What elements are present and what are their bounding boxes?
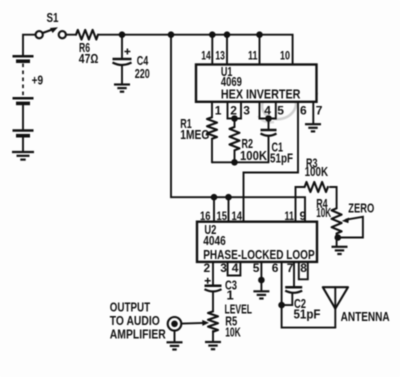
ground (battery) bbox=[12, 152, 34, 160]
resistor R1 1MEG bbox=[180, 116, 217, 162]
wire pins 2-3 bracket bbox=[228, 102, 242, 119]
svg-text:8: 8 bbox=[300, 261, 307, 275]
node: R2 top junction bbox=[231, 115, 238, 122]
node: U2 supply riser junction bbox=[168, 31, 175, 38]
svg-text:S1: S1 bbox=[47, 10, 59, 25]
node: pin14 stub junction bbox=[209, 31, 216, 38]
svg-text:1: 1 bbox=[227, 288, 234, 303]
svg-text:47Ω: 47Ω bbox=[79, 51, 99, 66]
svg-text:11: 11 bbox=[248, 49, 258, 63]
output jack J1 bbox=[168, 317, 182, 342]
svg-text:220: 220 bbox=[135, 66, 150, 81]
svg-text:ZERO: ZERO bbox=[348, 201, 374, 216]
wire pin 16 stub bbox=[213, 197, 215, 222]
resistor R4 10K (zero pot) bbox=[316, 196, 341, 246]
svg-text:6: 6 bbox=[300, 104, 307, 118]
svg-text:13: 13 bbox=[215, 49, 225, 63]
svg-text:14: 14 bbox=[201, 49, 211, 63]
capacitor C1 51pF bbox=[261, 119, 294, 166]
capacitor C2 51pF bbox=[282, 262, 321, 322]
label output bbox=[110, 299, 166, 341]
svg-text:10K: 10K bbox=[316, 205, 331, 220]
node: pin 5 junction bbox=[258, 277, 265, 284]
svg-text:4046: 4046 bbox=[203, 233, 226, 248]
antenna bbox=[323, 287, 390, 327]
node: R2 bottom junction bbox=[231, 159, 238, 166]
svg-text:OUTPUT: OUTPUT bbox=[110, 299, 150, 314]
wire pin 6 to pin 14 of U2 bbox=[244, 102, 299, 222]
scan ghost smudge bbox=[258, 88, 318, 123]
capacitor C3 1uF bbox=[205, 278, 238, 312]
wire pin 6 to antenna/C2 node bbox=[282, 262, 336, 328]
svg-text:3: 3 bbox=[220, 261, 227, 275]
wire pin 5 stub bbox=[260, 262, 262, 291]
pin labels U2 top bbox=[200, 209, 307, 223]
wire oscillator bottom rail bbox=[212, 161, 269, 163]
ground (U2 pin 5) bbox=[253, 291, 269, 298]
svg-text:100K: 100K bbox=[240, 148, 268, 163]
svg-text:PHASE-LOCKED LOOP: PHASE-LOCKED LOOP bbox=[203, 247, 315, 262]
pot wiper arrow (ZERO) bbox=[337, 201, 375, 238]
resistor R3 100K bbox=[305, 155, 337, 208]
svg-text:10K: 10K bbox=[225, 325, 241, 340]
wire V+ rail bbox=[98, 35, 293, 65]
wire pins 4-5 bracket bbox=[260, 102, 276, 119]
wire jack to R5 wiper arrow bbox=[182, 320, 210, 326]
svg-text:5: 5 bbox=[253, 261, 260, 275]
node: pin11 stub junction bbox=[256, 31, 263, 38]
svg-text:10: 10 bbox=[280, 49, 290, 63]
wire pin 13 stub bbox=[226, 35, 228, 65]
node: R4 bottom junction bbox=[335, 234, 342, 241]
svg-text:51pF: 51pF bbox=[294, 307, 321, 322]
pin 7 stub bbox=[312, 102, 314, 124]
battery B1 +9V bbox=[13, 56, 44, 151]
pin labels U1 top bbox=[201, 49, 290, 63]
svg-text:ANTENNA: ANTENNA bbox=[341, 309, 390, 324]
node: C1 top junction bbox=[265, 115, 272, 122]
resistor R6 47ohm bbox=[76, 30, 98, 66]
capacitor C4 220 (electrolytic) bbox=[113, 35, 150, 84]
wire pin 2 stub bbox=[212, 262, 214, 285]
op-amp U2 4046 phase-locked loop bbox=[197, 222, 317, 262]
wire battery top to switch bbox=[23, 35, 36, 55]
svg-text:1MEG: 1MEG bbox=[180, 127, 209, 142]
svg-text:3: 3 bbox=[243, 104, 250, 118]
pin 1 stub bbox=[211, 102, 213, 118]
svg-text:5: 5 bbox=[277, 104, 284, 118]
wire pin 11 stub bbox=[259, 35, 261, 65]
node: pin 15 junction bbox=[225, 194, 232, 201]
ground (R4) bbox=[332, 247, 348, 254]
wire pin 15 stub bbox=[228, 197, 230, 222]
svg-text:7: 7 bbox=[316, 104, 323, 118]
node: pin 16 junction bbox=[211, 194, 218, 201]
ground (U1 pin 7) bbox=[305, 124, 321, 131]
svg-text:4: 4 bbox=[232, 261, 239, 275]
svg-text:100K: 100K bbox=[305, 164, 329, 179]
wire switch to R6 bbox=[66, 34, 76, 36]
node: pin13 stub junction bbox=[224, 31, 231, 38]
svg-text:1: 1 bbox=[215, 104, 222, 118]
ground (C4) bbox=[114, 85, 130, 92]
switch S1 bbox=[36, 10, 66, 38]
svg-text:HEX INVERTER: HEX INVERTER bbox=[221, 86, 301, 101]
wire pin 14 stub bbox=[211, 35, 213, 65]
svg-text:51pF: 51pF bbox=[270, 151, 293, 166]
wire pins 3-4 bracket bbox=[228, 262, 241, 276]
ground (output jack) bbox=[167, 342, 183, 349]
svg-text:7: 7 bbox=[287, 261, 294, 275]
resistor R2 100K bbox=[230, 119, 268, 163]
resistor R5 10K (level pot) bbox=[208, 302, 252, 342]
svg-text:AMPLIFIER: AMPLIFIER bbox=[110, 327, 166, 342]
op-amp U1 4069 hex inverter bbox=[196, 64, 317, 102]
ground (R5) bbox=[205, 342, 221, 349]
wire pin 11 riser to R3 bbox=[296, 187, 305, 222]
svg-text:2: 2 bbox=[204, 261, 211, 275]
node: C4 junction bbox=[119, 31, 126, 38]
wire pin 8 bracket bbox=[299, 262, 308, 279]
svg-text:6: 6 bbox=[272, 261, 279, 275]
svg-text:+9: +9 bbox=[32, 73, 43, 88]
node: C2/antenna junction bbox=[278, 302, 285, 309]
wire V+ riser to U2 pins 16,15 and 9 bbox=[171, 35, 305, 222]
